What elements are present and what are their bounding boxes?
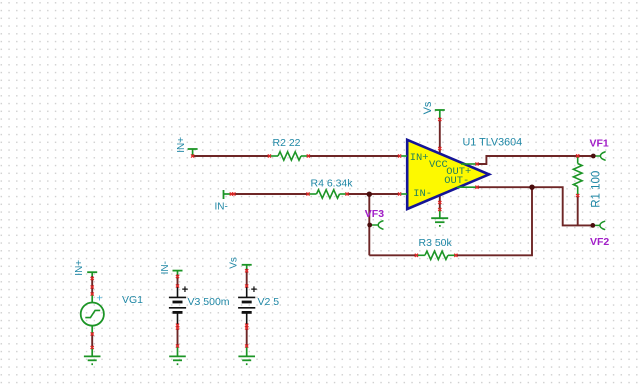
probe VF1 [591,152,605,160]
terminal IN+ [188,149,198,156]
wire op-amp VEE pin to ground [439,195,441,211]
junction node at OUT- / R3 [529,185,534,190]
svg-text:R4 6.34k: R4 6.34k [311,178,354,190]
svg-text:IN-: IN- [160,261,171,274]
wire R2 to op-amp IN+ [308,155,399,157]
svg-text:Vs: Vs [229,257,240,269]
wire R1 bottom down to VF2 row [577,197,579,226]
svg-text:IN-: IN- [413,188,432,200]
wire node IN- down through VF3 to R3 row [368,194,370,255]
svg-text:IN-: IN- [215,202,228,213]
wire R3 right up to OUT- node [456,187,532,255]
connection x-marks [91,118,580,349]
battery V2 [238,265,255,357]
resistor R4 [308,190,347,198]
resistor R3 [416,251,456,259]
svg-text:VCC: VCC [429,159,448,171]
terminal IN- [224,190,231,199]
junction node at IN- / VF3 [367,192,372,197]
probe VF3 [367,221,383,229]
svg-text:VF3: VF3 [365,208,384,220]
wire Vs to op-amp VCC pin [439,118,441,154]
wire OUT+ to VF1 [477,156,593,164]
ground below V3 [169,356,186,364]
ground below V2 [238,356,255,364]
resistor R1 [573,156,582,195]
svg-text:+: + [96,293,102,305]
ground below VG1 [84,356,101,364]
svg-text:VG1: VG1 [122,294,143,306]
svg-text:R2 22: R2 22 [273,137,301,149]
svg-text:VF1: VF1 [590,138,609,150]
svg-text:OUT-: OUT- [444,175,469,187]
Vs supply at op-amp [435,110,445,118]
svg-text:U1 TLV3604: U1 TLV3604 [463,137,523,149]
svg-text:V3 500m: V3 500m [188,296,230,308]
wire OUT- to VF2 [477,187,593,225]
svg-text:+: + [182,284,188,296]
probe VF2 [590,221,604,229]
wire R4 to op-amp IN- [347,193,400,195]
op-amp U1 [401,140,489,209]
voltage generator VG1 [81,272,104,356]
svg-text:IN+: IN+ [74,260,85,276]
wire R3 row left [369,254,416,256]
svg-text:V2 5: V2 5 [258,296,280,308]
wire IN+ terminal to R2 [193,155,270,157]
svg-text:R1 100: R1 100 [590,171,602,208]
svg-text:IN+: IN+ [410,152,429,164]
battery V3 [169,271,186,357]
resistor R2 [269,152,308,160]
svg-text:VF2: VF2 [590,236,609,248]
ground below op-amp [431,208,448,226]
svg-text:Vs: Vs [422,101,434,114]
svg-text:R3 50k: R3 50k [419,237,453,249]
svg-text:+: + [251,284,257,296]
wire IN- terminal to R4 [231,193,308,195]
svg-text:IN+: IN+ [176,137,187,153]
